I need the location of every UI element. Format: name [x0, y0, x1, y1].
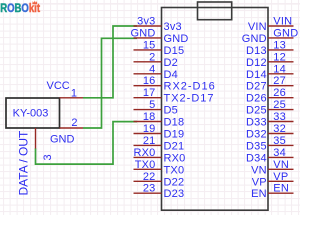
- svg-text:D18: D18: [164, 117, 185, 129]
- svg-text:17: 17: [143, 87, 156, 99]
- svg-text:KY-003: KY-003: [13, 108, 49, 120]
- pin 18 / D18 (U2 left row 9): [134, 111, 185, 129]
- svg-text:GND: GND: [164, 33, 189, 45]
- svg-text:19: 19: [143, 123, 156, 135]
- svg-text:22: 22: [143, 171, 156, 183]
- svg-text:EN: EN: [273, 183, 289, 195]
- ESP32 antenna notch: [198, 2, 232, 20]
- pin 35 / D35 (U2 right row 11): [246, 135, 293, 153]
- svg-text:RX0: RX0: [134, 147, 156, 159]
- svg-text:D21: D21: [164, 140, 185, 152]
- svg-text:TX0: TX0: [164, 164, 185, 176]
- svg-text:GND: GND: [130, 27, 155, 39]
- svg-text:2: 2: [71, 117, 77, 129]
- wire DATA: KY-003 pin3 to ESP32 D18: [36, 122, 138, 165]
- pin TX0 / TX0 (U2 left row 13): [134, 159, 185, 177]
- svg-text:D23: D23: [164, 188, 185, 200]
- svg-text:D12: D12: [246, 57, 267, 69]
- svg-text:1: 1: [71, 88, 77, 100]
- pin 2 / D2 (U2 left row 4): [134, 51, 178, 69]
- pin EN / EN (U2 right row 15): [251, 183, 293, 201]
- svg-text:D2: D2: [164, 57, 178, 69]
- svg-text:3: 3: [42, 154, 54, 160]
- svg-text:VP: VP: [252, 176, 267, 188]
- pin 3 DATA of KY-003: [36, 128, 55, 161]
- pin 13 / D13 (U2 right row 3): [246, 39, 293, 57]
- svg-text:12: 12: [273, 51, 286, 63]
- svg-text:D4: D4: [164, 69, 178, 81]
- svg-text:D34: D34: [246, 152, 267, 164]
- svg-text:VIN: VIN: [248, 21, 267, 33]
- pin 34 / D34 (U2 right row 12): [246, 147, 293, 165]
- pin 17 / TX2-D17 (U2 left row 7): [134, 87, 215, 105]
- svg-text:13: 13: [273, 39, 286, 51]
- svg-text:4: 4: [149, 63, 155, 75]
- svg-text:15: 15: [143, 39, 156, 51]
- svg-text:TX0: TX0: [135, 159, 156, 171]
- wire VCC: KY-003 pin1 to ESP32 3v3: [83, 26, 137, 98]
- pin 22 / D22 (U2 left row 14): [134, 171, 185, 189]
- svg-text:D22: D22: [164, 176, 185, 188]
- pin 21 / D21 (U2 left row 11): [134, 135, 185, 153]
- module U1 KY-003 body: [6, 98, 60, 128]
- pin 27 / D27 (U2 right row 6): [246, 75, 293, 93]
- svg-text:33: 33: [273, 111, 286, 123]
- pin 16 / RX2-D16 (U2 left row 6): [134, 75, 216, 93]
- svg-text:35: 35: [273, 135, 286, 147]
- svg-text:VN: VN: [251, 164, 267, 176]
- svg-text:2: 2: [149, 51, 155, 63]
- logo ROBOkit: [0, 1, 40, 16]
- svg-text:D13: D13: [246, 45, 267, 57]
- pin 4 / D4 (U2 left row 5): [134, 63, 178, 81]
- pin VIN / VIN (U2 right row 1): [248, 16, 294, 34]
- svg-text:27: 27: [273, 75, 286, 87]
- module U2 ESP32 DevKit body: [162, 8, 269, 211]
- pin 23 / D23 (U2 left row 15): [134, 183, 185, 201]
- svg-text:D33: D33: [246, 117, 267, 129]
- pin 3v3 / 3v3 (U2 left row 1): [134, 16, 182, 34]
- svg-text:21: 21: [143, 135, 156, 147]
- pin 19 / D19 (U2 left row 10): [134, 123, 185, 141]
- svg-text:5: 5: [149, 99, 155, 111]
- pin 5 / D5 (U2 left row 8): [134, 99, 178, 117]
- pin VP / VP (U2 right row 14): [252, 171, 294, 189]
- svg-text:3v3: 3v3: [137, 16, 155, 28]
- svg-text:23: 23: [143, 183, 156, 195]
- pin 26 / D26 (U2 right row 7): [246, 87, 293, 105]
- svg-text:D19: D19: [164, 129, 185, 141]
- svg-text:34: 34: [273, 147, 286, 159]
- pin 2 GND of KY-003: [60, 117, 84, 129]
- svg-text:D25: D25: [246, 105, 267, 117]
- svg-text:VCC: VCC: [47, 80, 70, 92]
- svg-text:D27: D27: [246, 81, 267, 93]
- svg-text:EN: EN: [251, 188, 267, 200]
- svg-text:RX2-D16: RX2-D16: [164, 81, 216, 93]
- pin 12 / D12 (U2 right row 4): [246, 51, 293, 69]
- svg-text:D35: D35: [246, 140, 267, 152]
- svg-text:18: 18: [143, 111, 156, 123]
- pin 1 VCC of KY-003: [60, 88, 84, 100]
- pin 32 / D32 (U2 right row 10): [246, 123, 293, 141]
- svg-text:D5: D5: [164, 105, 178, 117]
- pin 33 / D33 (U2 right row 9): [246, 111, 293, 129]
- wire GND: KY-003 pin2 to ESP32 GND: [83, 38, 137, 128]
- pin GND / GND (U2 right row 2): [242, 27, 299, 45]
- svg-text:DATA / OUT: DATA / OUT: [17, 130, 31, 196]
- pin 25 / D25 (U2 right row 8): [246, 99, 293, 117]
- svg-text:D26: D26: [246, 93, 267, 105]
- svg-text:VN: VN: [273, 159, 289, 171]
- svg-text:VIN: VIN: [273, 16, 292, 28]
- pin 15 / D15 (U2 left row 3): [134, 39, 185, 57]
- svg-text:25: 25: [273, 99, 286, 111]
- svg-text:D32: D32: [246, 129, 267, 141]
- svg-text:D14: D14: [246, 69, 267, 81]
- svg-text:GND: GND: [273, 27, 298, 39]
- pin GND / GND (U2 left row 2): [130, 27, 188, 45]
- svg-text:14: 14: [273, 63, 286, 75]
- svg-text:VP: VP: [273, 171, 288, 183]
- svg-text:26: 26: [273, 87, 286, 99]
- svg-text:16: 16: [143, 75, 156, 87]
- svg-text:GND: GND: [242, 33, 267, 45]
- pin VN / VN (U2 right row 13): [251, 159, 293, 177]
- svg-text:32: 32: [273, 123, 286, 135]
- pin 14 / D14 (U2 right row 5): [246, 63, 293, 81]
- svg-text:D15: D15: [164, 45, 185, 57]
- svg-text:GND: GND: [50, 134, 75, 146]
- svg-text:3v3: 3v3: [164, 21, 182, 33]
- svg-text:RX0: RX0: [164, 152, 186, 164]
- pin RX0 / RX0 (U2 left row 12): [134, 147, 186, 165]
- svg-text:TX2-D17: TX2-D17: [164, 93, 215, 105]
